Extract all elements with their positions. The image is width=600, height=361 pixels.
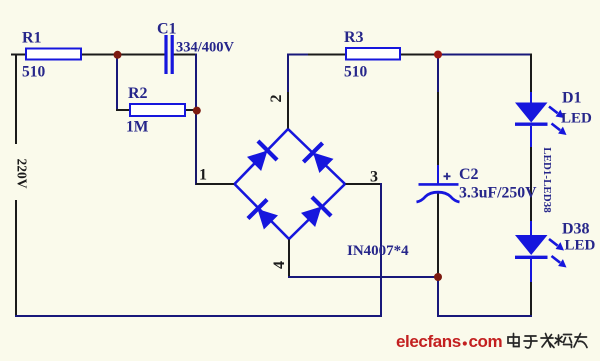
wire: AC live left rail lower xyxy=(15,200,17,317)
wire: top rail node2 to R3 (navy part) xyxy=(287,54,308,56)
svg-text:4: 4 xyxy=(271,261,288,269)
svg-text:1: 1 xyxy=(199,167,207,184)
svg-text:510: 510 xyxy=(22,64,46,81)
svg-text:2: 2 xyxy=(268,95,285,103)
glyph zi xyxy=(524,336,537,348)
glyph dian xyxy=(508,334,519,347)
svg-text:1M: 1M xyxy=(126,119,149,136)
wire: bottom rail xyxy=(15,315,382,317)
svg-text:com: com xyxy=(469,332,503,351)
glyph you xyxy=(574,334,587,348)
svg-text:C2: C2 xyxy=(459,166,479,183)
diode D-bottomright (points to node 3) xyxy=(299,197,332,230)
wire: node 4 horizontal to junction C xyxy=(288,276,438,278)
bridge edge bottom-right xyxy=(289,184,345,239)
LED D38 xyxy=(515,235,548,255)
wire: bridge top vertex stub upper (node 2) xyxy=(287,54,289,93)
wire: node 4 vertical stub xyxy=(288,239,290,278)
LED D1 xyxy=(515,103,548,123)
svg-text:R3: R3 xyxy=(344,29,364,46)
wire: bridge top vertex stub lower xyxy=(287,92,289,130)
wire: C2 below arc (black) xyxy=(437,193,439,277)
wire: LED string middle (black) xyxy=(530,147,532,221)
resistor R1 xyxy=(26,49,81,60)
junction dot A (R1/C1/R2) xyxy=(114,51,122,59)
wire: R2 left stub xyxy=(116,109,131,111)
wire: LED string bottom (black) xyxy=(530,282,532,317)
wire: node 3 vertical down to bottom rail xyxy=(380,183,382,317)
svg-text:R2: R2 xyxy=(128,85,148,102)
wire: R1 left stub xyxy=(11,54,27,56)
svg-text:R1: R1 xyxy=(22,30,42,47)
watermark chinese characters 电子发烧友 xyxy=(508,334,587,349)
junction dot (R2 right / C1 branch) xyxy=(193,107,201,115)
svg-text:D1: D1 xyxy=(562,90,582,107)
glyph fa xyxy=(541,334,554,348)
svg-text:D38: D38 xyxy=(562,221,590,238)
wire: top rail to R3 (black part) xyxy=(308,54,347,56)
svg-text:510: 510 xyxy=(344,64,368,81)
capacitor C2 (polarized) xyxy=(419,183,459,186)
wire: into D38 (blue) xyxy=(530,221,532,236)
wire: node 1 to bridge left vertex xyxy=(196,183,235,185)
wire: R3 right to junction B xyxy=(399,54,438,56)
wire: C1 right plate to corner xyxy=(173,54,197,56)
wire: LED string into D1 (blue) xyxy=(530,92,532,104)
wire: C2 bottom to rail (navy) xyxy=(437,277,439,317)
wire: R1 right to junction A xyxy=(80,54,165,56)
bridge edge bottom-left xyxy=(235,184,290,239)
junction dot B (R3 / C2 / LED top) xyxy=(434,51,442,59)
svg-text:C1: C1 xyxy=(157,21,177,38)
svg-text:3.3uF/250V: 3.3uF/250V xyxy=(459,185,537,202)
resistor R2 xyxy=(130,104,185,116)
wire: bottom right rail xyxy=(437,315,532,317)
svg-text:LED: LED xyxy=(565,238,596,254)
capacitor C1 xyxy=(164,35,167,74)
wire: R2 right stub xyxy=(184,109,197,111)
glyph shao xyxy=(555,335,572,348)
wire: R2 junction down to node 1 xyxy=(195,111,197,186)
svg-text:LED: LED xyxy=(561,111,592,127)
diode D-bottomleft (points to node 1) xyxy=(248,199,281,232)
junction dot C (node4 / C2 bottom) xyxy=(434,273,442,281)
svg-text:220V: 220V xyxy=(14,159,29,189)
wire: C2 branch upper (navy then black) xyxy=(437,55,439,93)
bridge edge top-left xyxy=(235,129,289,184)
diode D-topleft (points to node 2) xyxy=(245,141,278,174)
diode D-topright (points to node 2) xyxy=(303,143,336,176)
svg-text:IN4007*4: IN4007*4 xyxy=(347,243,409,259)
resistor R3 xyxy=(346,48,400,60)
bridge edge top-right xyxy=(288,129,345,184)
wire: junction B to LED corner xyxy=(438,54,532,56)
svg-text:LED1-LED38: LED1-LED38 xyxy=(541,147,553,213)
svg-text:334/400V: 334/400V xyxy=(176,40,235,56)
wire: AC live left rail upper xyxy=(15,54,17,145)
wire: R2 branch vertical from junction A xyxy=(116,55,118,112)
wire: D38 out (blue) xyxy=(530,258,532,282)
wire: corner down to R2 junction xyxy=(195,54,197,111)
svg-text:elecfans: elecfans xyxy=(396,332,461,351)
wire: D1 out (blue) xyxy=(530,126,532,147)
wire: C2 branch into plate (blue) xyxy=(437,165,439,184)
wire: LED string top (black) xyxy=(530,54,532,93)
svg-text:3: 3 xyxy=(370,169,378,186)
wire: node 3 horizontal stub xyxy=(345,183,382,185)
